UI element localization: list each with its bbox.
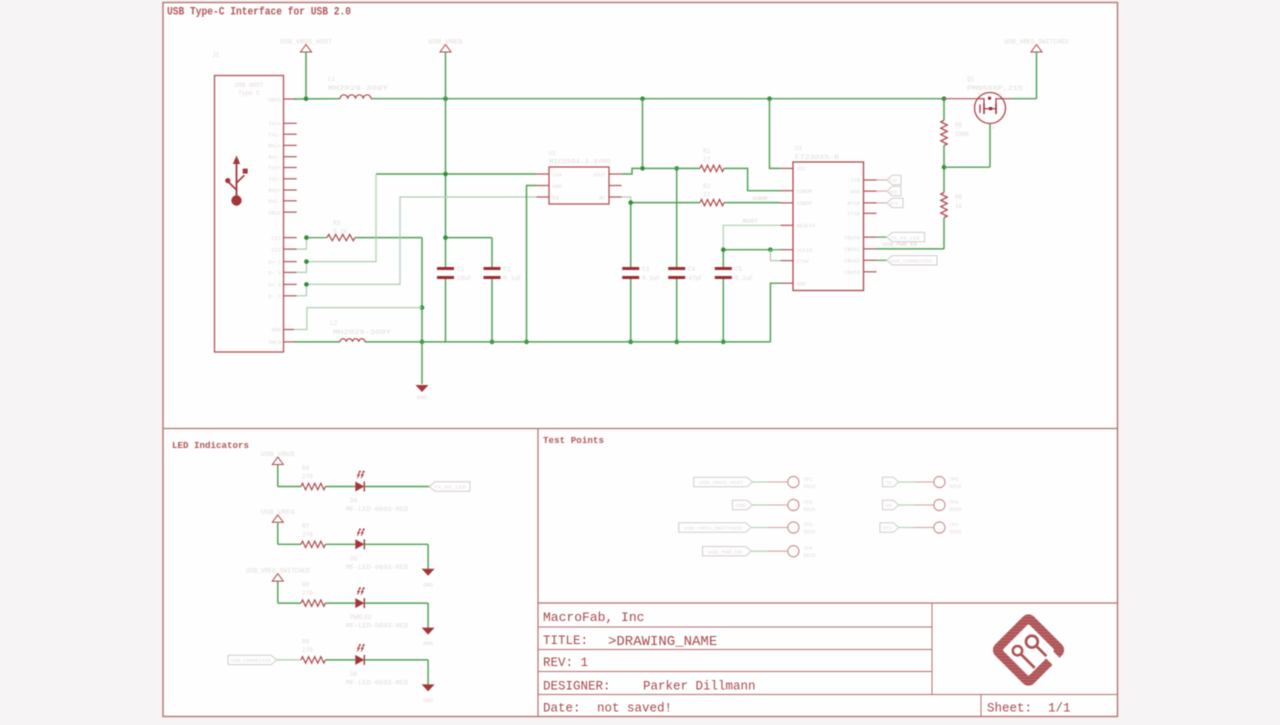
wire LED to ground row 4	[364, 660, 428, 685]
svg-text:R8: R8	[302, 582, 310, 589]
svg-text:TX1+: TX1+	[269, 122, 281, 128]
svg-text:not saved!: not saved!	[597, 702, 672, 716]
LED D4	[346, 471, 408, 513]
wire R2 to USBDP	[724, 196, 781, 203]
wire ground rail	[294, 341, 770, 343]
svg-text:CBUS2: CBUS2	[844, 259, 860, 265]
title block Date row	[543, 702, 672, 716]
wire U2 VOUT riser	[622, 99, 643, 174]
svg-text:RTS: RTS	[883, 526, 892, 532]
svg-text:TX2-: TX2-	[269, 177, 281, 183]
svg-text:USB HOST: USB HOST	[235, 82, 264, 89]
svg-text:RX2-: RX2-	[269, 199, 281, 205]
svg-text:NC: NC	[599, 196, 605, 202]
wire RESET net	[723, 219, 780, 250]
svg-text:RXD: RXD	[886, 503, 892, 509]
LED D6	[346, 644, 408, 686]
section divider lines	[163, 429, 1118, 717]
svg-text:REV: 1: REV: 1	[543, 656, 588, 670]
svg-text:D- 2: D- 2	[269, 294, 281, 300]
svg-text:R5: R5	[955, 122, 963, 129]
wire CTS jog	[770, 250, 780, 261]
svg-text:5015: 5015	[803, 507, 815, 513]
wire VBUS arrow stem	[305, 52, 307, 99]
svg-text:D5: D5	[350, 555, 358, 562]
svg-text:27: 27	[703, 192, 711, 199]
svg-text:10uF: 10uF	[457, 275, 472, 282]
svg-text:MH2029-300Y: MH2029-300Y	[333, 329, 392, 336]
wire LED to tag row 1	[364, 486, 429, 488]
svg-text:R7: R7	[302, 523, 310, 530]
svg-text:VOUT: VOUT	[593, 173, 605, 179]
title block DESIGNER row	[543, 680, 756, 694]
wire R3 to rail	[304, 235, 424, 344]
svg-text:RESET: RESET	[742, 219, 757, 225]
svg-text:FT230XS-R: FT230XS-R	[795, 154, 840, 161]
svg-text:VBUS: VBUS	[268, 97, 282, 104]
svg-text:R2: R2	[703, 183, 711, 190]
svg-text:>DRAWING_NAME: >DRAWING_NAME	[608, 634, 717, 650]
svg-text:5015: 5015	[803, 553, 815, 559]
title block REV row	[543, 656, 588, 670]
LED D5	[346, 528, 408, 570]
svg-text:5015: 5015	[949, 507, 961, 513]
wire 3V3 node	[640, 166, 700, 171]
svg-text:LED Indicators: LED Indicators	[172, 440, 249, 451]
wire LED row 1 stem	[278, 465, 301, 487]
svg-text:CTS#: CTS#	[797, 259, 809, 265]
resistor R5	[941, 99, 970, 168]
USB trident logo	[225, 156, 248, 206]
capacitor C3	[622, 203, 660, 345]
svg-text:RX2+: RX2+	[269, 188, 281, 194]
svg-text:CTS#: CTS#	[848, 212, 860, 218]
svg-text:SHLD: SHLD	[269, 340, 281, 346]
wire VCCIO net	[721, 247, 781, 252]
svg-text:5015: 5015	[803, 484, 815, 490]
sheet title USB Type-C Interface for USB 2.0	[167, 7, 351, 19]
svg-text:GND: GND	[797, 281, 806, 287]
svg-text:47pF: 47pF	[688, 275, 703, 282]
svg-text:GND: GND	[423, 640, 434, 647]
wire C2 top	[443, 235, 494, 344]
svg-text:D4: D4	[350, 498, 358, 505]
test point TP1 USB_VBUS_HOST	[694, 476, 816, 490]
J1 pin VBUS	[268, 97, 296, 104]
svg-text:G: G	[992, 125, 995, 131]
svg-text:Q1: Q1	[967, 76, 975, 83]
wire GND pin to R3 net	[294, 308, 422, 330]
supply symbol USB_VREG LED row 2	[261, 509, 295, 523]
svg-text:CBUS0: CBUS0	[844, 235, 860, 241]
svg-text:PWRLED: PWRLED	[350, 614, 372, 621]
svg-text:U1: U1	[795, 145, 803, 152]
svg-text:USBDM: USBDM	[752, 196, 767, 202]
svg-text:270: 270	[302, 531, 313, 538]
svg-text:USBDP: USBDP	[797, 201, 813, 207]
svg-text:100k: 100k	[955, 131, 970, 138]
svg-text:5.1k: 5.1k	[333, 229, 348, 236]
wire U2 VIN net	[376, 172, 537, 177]
svg-text:CBUS1: CBUS1	[844, 247, 860, 253]
svg-text:0.1uF: 0.1uF	[642, 275, 660, 282]
wire U2 NC to C3	[622, 197, 631, 203]
svg-text:USB_VREG: USB_VREG	[429, 39, 463, 46]
supply symbol USB_VBUS_HOST	[280, 39, 332, 53]
svg-text:U2: U2	[549, 150, 557, 157]
capacitor C1	[437, 266, 472, 282]
svg-text:MH2029-300Y: MH2029-300Y	[328, 85, 389, 92]
svg-text:R1: R1	[703, 148, 711, 155]
svg-text:TP6: TP6	[949, 500, 958, 506]
net tag TX_RX_LED output	[429, 482, 470, 491]
wire R1 to USBDM	[724, 168, 781, 190]
capacitor C4	[668, 166, 703, 344]
svg-text:VCC: VCC	[797, 167, 806, 173]
ground symbol LED row 3	[422, 628, 435, 648]
resistor R2	[700, 183, 724, 206]
svg-text:J1: J1	[212, 52, 220, 59]
svg-text:USB Type-C Interface for USB 2: USB Type-C Interface for USB 2.0	[167, 7, 351, 19]
svg-text:TP5: TP5	[949, 477, 958, 483]
svg-text:TP7: TP7	[949, 523, 958, 529]
resistor R6	[941, 165, 963, 249]
svg-text:TX_RX_LED: TX_RX_LED	[890, 235, 920, 241]
test point TP3 USB_VREG_SWITCHED	[679, 522, 816, 536]
net tag TX_RX_LED	[877, 232, 925, 241]
svg-text:TP3: TP3	[803, 523, 812, 529]
svg-text:TX2+: TX2+	[269, 166, 281, 172]
svg-text:TXD: TXD	[886, 480, 892, 486]
J1 GND and SHLD pins	[269, 328, 294, 346]
wire resistor to LED row 3	[325, 602, 355, 604]
svg-text:MIC5504-3.3YM5: MIC5504-3.3YM5	[549, 159, 611, 166]
svg-text:VCCIO: VCCIO	[797, 248, 813, 254]
net tag USB_CONNECTED LED row 4	[228, 655, 301, 664]
svg-text:TX_RX_LED: TX_RX_LED	[434, 485, 466, 491]
net tag RXD	[877, 186, 902, 195]
supply symbol USB_VBUS LED row 1	[261, 451, 295, 465]
svg-text:D: D	[999, 92, 1002, 98]
svg-text:MF-LED-0603-RED: MF-LED-0603-RED	[346, 623, 408, 630]
LED PWRLED	[346, 587, 408, 629]
regulator U2	[549, 150, 611, 204]
svg-text:USB_CONNECTED: USB_CONNECTED	[890, 259, 932, 265]
wire D- pair	[297, 197, 537, 296]
svg-text:1/1: 1/1	[1048, 702, 1071, 716]
svg-text:RXD: RXD	[889, 189, 898, 195]
wire Q1 gate	[944, 124, 990, 168]
svg-text:CC1: CC1	[272, 236, 281, 242]
svg-text:MF-LED-0603-RED: MF-LED-0603-RED	[346, 679, 408, 686]
svg-text:PMN50XP,215: PMN50XP,215	[967, 85, 1024, 92]
svg-text:TX1-: TX1-	[269, 132, 281, 138]
svg-text:USBDM: USBDM	[797, 189, 813, 195]
svg-text:TP4: TP4	[803, 546, 812, 552]
svg-text:Test Points: Test Points	[543, 435, 604, 446]
svg-text:MacroFab, Inc: MacroFab, Inc	[543, 610, 644, 625]
test point TP2 GND	[733, 499, 816, 513]
svg-text:RTS: RTS	[890, 201, 899, 207]
resistor R4	[301, 465, 325, 490]
svg-text:USB_VREG: USB_VREG	[261, 509, 295, 516]
svg-text:SBU1: SBU1	[269, 210, 281, 216]
section label Test Points	[543, 435, 604, 446]
ferrite bead L1	[328, 76, 389, 99]
svg-text:USB_VBUS_HOST: USB_VBUS_HOST	[699, 480, 743, 486]
svg-text:VIN: VIN	[553, 173, 562, 179]
svg-text:S: S	[978, 92, 981, 98]
title block frame	[538, 603, 1118, 717]
svg-text:R3: R3	[333, 220, 341, 227]
svg-text:TXD: TXD	[851, 178, 860, 184]
MacroFab logo	[990, 611, 1069, 690]
title block TITLE row	[543, 634, 717, 650]
J1 CC and data pin stubs	[269, 236, 297, 300]
test point TP7 RTS	[880, 522, 961, 536]
test point TP4 USB_PWR_EN	[703, 546, 816, 560]
svg-text:C2: C2	[504, 266, 512, 273]
svg-text:MF-LED-0603-RED: MF-LED-0603-RED	[346, 564, 408, 571]
connector J1 USB Type-C host	[212, 52, 284, 352]
svg-text:Type C: Type C	[238, 90, 260, 97]
wire LED row 2 stem	[278, 522, 301, 544]
wire resistor to LED row 4	[325, 659, 355, 661]
svg-text:RTS#: RTS#	[848, 201, 860, 207]
svg-text:RX1-: RX1-	[269, 155, 281, 161]
svg-text:C4: C4	[688, 266, 696, 273]
svg-text:L1: L1	[328, 76, 336, 83]
svg-text:R4: R4	[302, 465, 310, 472]
title block company MacroFab, Inc	[543, 610, 644, 625]
wire VCC riser	[770, 99, 781, 169]
J1 high speed pin stubs TX/RX/SBU	[269, 122, 297, 217]
svg-text:TP1: TP1	[803, 477, 812, 483]
svg-text:270: 270	[302, 590, 313, 597]
svg-text:D- 1: D- 1	[269, 271, 281, 277]
svg-text:USB_VREG_SWITCHED: USB_VREG_SWITCHED	[246, 568, 310, 575]
svg-text:5015: 5015	[949, 530, 961, 536]
supply symbol USB_VREG	[429, 39, 463, 53]
svg-text:TP2: TP2	[803, 500, 812, 506]
net tag USB_CONNECTED	[877, 256, 938, 265]
title block Sheet cell	[987, 702, 1071, 716]
svg-text:CC2: CC2	[272, 247, 281, 253]
wire LED to ground row 2	[364, 544, 428, 569]
svg-text:D+ 2: D+ 2	[269, 283, 281, 289]
svg-text:R9: R9	[302, 638, 310, 645]
U1 left pin stubs	[781, 168, 794, 283]
wire D+ pair	[297, 174, 376, 272]
svg-text:D6: D6	[350, 671, 358, 678]
svg-text:GND: GND	[423, 697, 434, 704]
ground symbol LED row 4	[422, 684, 435, 704]
wire LED to ground row 3	[364, 603, 428, 628]
net tag RTS	[877, 198, 904, 207]
svg-text:EN: EN	[553, 196, 559, 202]
test point TP6 RXD	[883, 499, 962, 513]
wire switched-supply stem	[1012, 52, 1037, 99]
svg-text:USB_VREG_SWITCHED: USB_VREG_SWITCHED	[684, 526, 742, 532]
svg-text:RXD: RXD	[851, 189, 860, 195]
wire USB_VREG vertical	[445, 52, 447, 342]
svg-text:5015: 5015	[803, 530, 815, 536]
ground symbol main	[416, 342, 429, 401]
U2 pin stubs	[537, 174, 622, 197]
svg-text:DESIGNER:: DESIGNER:	[543, 680, 611, 694]
svg-text:5015: 5015	[949, 484, 961, 490]
svg-text:D+ 1: D+ 1	[269, 260, 281, 266]
svg-text:GND: GND	[423, 581, 434, 588]
ferrite bead L2	[330, 320, 392, 342]
svg-text:C5: C5	[735, 266, 743, 273]
svg-text:CBUS3: CBUS3	[844, 270, 860, 276]
supply symbol USB_VREG_SWITCHED	[1005, 39, 1069, 53]
svg-text:GND: GND	[736, 503, 746, 509]
svg-text:USB_VBUS_HOST: USB_VBUS_HOST	[280, 39, 332, 46]
svg-text:Parker Dillmann: Parker Dillmann	[643, 680, 756, 694]
svg-text:0.1uF: 0.1uF	[504, 275, 522, 282]
wire LED row 3 stem	[278, 581, 301, 603]
svg-text:Sheet:: Sheet:	[987, 702, 1032, 716]
svg-text:0.1uF: 0.1uF	[735, 275, 753, 282]
test point TP5 TXD	[883, 476, 962, 490]
wire resistor to LED row 1	[325, 486, 355, 488]
IC U1 FT230XS	[793, 145, 864, 291]
svg-text:USB_VREG_SWITCHED: USB_VREG_SWITCHED	[1005, 39, 1069, 46]
resistor R8	[301, 582, 325, 607]
svg-text:RESET#: RESET#	[797, 224, 816, 230]
wire CC pair to VIN	[297, 238, 327, 250]
svg-text:MF-LED-0603-RED: MF-LED-0603-RED	[346, 506, 408, 513]
wire CBUS1 to gate divider	[877, 242, 945, 249]
svg-text:C3: C3	[642, 266, 650, 273]
ground symbol LED row 2	[422, 569, 435, 589]
wire FTDI ground	[770, 283, 780, 342]
wire U2 GND to ground rail	[524, 186, 536, 345]
section label LED Indicators	[172, 440, 249, 451]
svg-text:TITLE:: TITLE:	[543, 634, 588, 648]
svg-text:R6: R6	[955, 194, 963, 201]
svg-text:L2: L2	[330, 320, 338, 327]
svg-text:USB_VBUS: USB_VBUS	[261, 451, 295, 458]
svg-text:GND: GND	[272, 328, 281, 334]
resistor R3	[327, 220, 355, 241]
svg-text:270: 270	[302, 647, 313, 654]
svg-text:C1: C1	[457, 266, 465, 273]
wire VBUS rail	[294, 98, 944, 100]
capacitor C5	[715, 250, 754, 345]
supply symbol USB_VREG_SWITCHED LED row 3	[246, 568, 310, 582]
transistor Q1 PMOS	[944, 76, 1024, 131]
svg-text:USB_PWR_EN: USB_PWR_EN	[883, 242, 917, 248]
svg-text:Date:: Date:	[543, 702, 581, 716]
resistor R7	[301, 523, 325, 548]
svg-text:USB_PWR_EN: USB_PWR_EN	[708, 549, 742, 555]
svg-text:GND: GND	[553, 184, 562, 190]
capacitor C2	[484, 266, 522, 282]
resistor R1	[700, 148, 724, 172]
svg-text:GND: GND	[417, 394, 428, 401]
svg-text:USB_CONNECTED: USB_CONNECTED	[231, 658, 271, 664]
svg-text:TXD: TXD	[889, 178, 898, 184]
svg-text:27: 27	[703, 157, 711, 164]
wire USBDP node	[628, 200, 700, 205]
wire resistor to LED row 2	[325, 543, 355, 545]
svg-text:RX1+: RX1+	[269, 144, 281, 150]
svg-text:270: 270	[302, 474, 313, 481]
junction dots on VBUS rail	[304, 96, 947, 101]
svg-text:1k: 1k	[955, 203, 963, 210]
resistor R9	[301, 638, 325, 663]
net tag TXD	[877, 175, 902, 184]
U1 right pin stubs	[864, 180, 877, 272]
